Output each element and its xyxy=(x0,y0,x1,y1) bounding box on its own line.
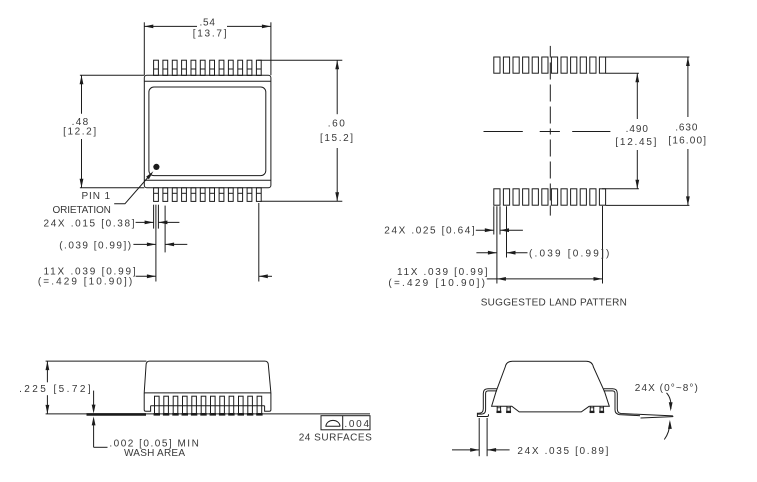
svg-text:(=.429 [10.90]): (=.429 [10.90]) xyxy=(38,277,132,288)
svg-text:[12.45]: [12.45] xyxy=(615,137,656,148)
svg-text:WASH AREA: WASH AREA xyxy=(124,448,185,459)
svg-text:ORIETATION: ORIETATION xyxy=(53,205,111,216)
svg-text:24X .035 [0.89]: 24X .035 [0.89] xyxy=(517,446,608,457)
svg-text:[12.2]: [12.2] xyxy=(63,126,96,137)
svg-text:SUGGESTED LAND PATTERN: SUGGESTED LAND PATTERN xyxy=(481,298,627,309)
svg-text:24 SURFACES: 24 SURFACES xyxy=(299,433,372,444)
svg-text:24X .025 [0.64]: 24X .025 [0.64] xyxy=(384,226,475,237)
svg-text:(=.429 [10.90]): (=.429 [10.90]) xyxy=(388,278,485,289)
svg-text:11X .039 [0.99]: 11X .039 [0.99] xyxy=(397,267,488,278)
svg-text:.225 [5.72]: .225 [5.72] xyxy=(19,384,91,395)
svg-text:24X .015 [0.38]: 24X .015 [0.38] xyxy=(44,219,135,230)
svg-text:.54: .54 xyxy=(200,18,216,29)
svg-text:.60: .60 xyxy=(328,119,345,130)
svg-text:(.039 [0.99]): (.039 [0.99]) xyxy=(529,248,609,259)
svg-text:[16.00]: [16.00] xyxy=(668,135,706,146)
svg-text:.004: .004 xyxy=(344,419,369,430)
svg-text:[15.2]: [15.2] xyxy=(320,133,353,144)
svg-text:.490: .490 xyxy=(626,124,649,135)
svg-text:PIN 1: PIN 1 xyxy=(82,191,111,202)
svg-text:.630: .630 xyxy=(675,123,698,134)
svg-text:(.039 [0.99]): (.039 [0.99]) xyxy=(59,241,131,252)
svg-text:24X (0°~8°): 24X (0°~8°) xyxy=(635,383,698,394)
svg-text:[13.7]: [13.7] xyxy=(193,29,227,40)
